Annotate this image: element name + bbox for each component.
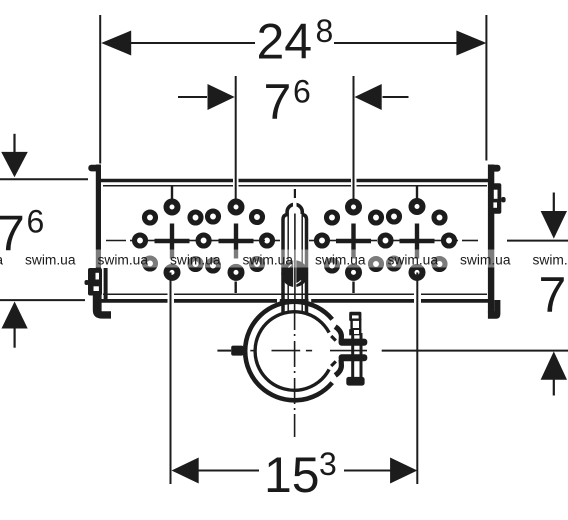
svg-text:swim.ua: swim.ua (243, 252, 294, 268)
svg-text:6: 6 (293, 74, 311, 110)
plate bottom edge thin line (103, 293, 487, 295)
left rail clip nub (85, 280, 89, 285)
svg-text:swim.ua: swim.ua (388, 252, 439, 268)
svg-text:7: 7 (0, 206, 25, 262)
plate bottom edge thick line (101, 299, 488, 303)
watermark texts (0, 252, 568, 268)
column centerline dash top x417 (416, 187, 418, 200)
clamp horizontal centerline dot (306, 350, 312, 352)
fixing cross 3 (336, 224, 371, 259)
dimension 153 left arrowhead (172, 458, 199, 484)
left rail clip slot 1 (96, 273, 100, 280)
clamp horizontal centerline through screw (330, 350, 367, 352)
column centerline dash bottom x236 (234, 282, 236, 294)
dimension 76 left up-arrow tail (14, 328, 16, 348)
dimension 76 left side: top reference line (0, 178, 88, 180)
clamp screw head inner white line (352, 315, 359, 319)
dimension 75 right down arrowhead (541, 211, 567, 239)
dimension 75 right down-arrow tail (553, 193, 555, 213)
fixing cross 2 (219, 224, 254, 259)
clamp screw upper flange bar (339, 339, 368, 346)
clamp screw shaft right edge (360, 333, 363, 377)
central tab dome apex gap (293, 201, 297, 210)
central tab inner right line (301, 214, 303, 313)
dimension 76 left up arrowhead (2, 302, 28, 329)
dimension 248 right arrowhead (456, 31, 486, 56)
dimension 76 right tail (383, 96, 409, 98)
dimension 153 bottom: left extension line from hole (170, 273, 172, 485)
dimension 76 left side: bottom reference line (0, 299, 85, 301)
dimension 248 line right segment (334, 42, 460, 44)
pipe clamp lower hook inner connector (331, 361, 336, 366)
plate right end bottom J-foot (488, 300, 501, 319)
svg-text:3: 3 (319, 446, 337, 482)
left rail clip slot 2 (94, 286, 99, 291)
clamp screw shaft left edge (351, 333, 354, 377)
svg-text:24: 24 (257, 14, 313, 70)
clamp screw lower flange bar (339, 354, 368, 361)
central tab right outer wall (302, 215, 307, 301)
dimension 248 line left segment (127, 42, 255, 44)
central tab inner left line (287, 214, 289, 313)
pipe clamp outer ring arc (245, 302, 332, 401)
dimension 153 line right segment (344, 470, 391, 472)
pipe clamp inner ring arc (255, 312, 329, 391)
dimension 153 line left segment (199, 470, 260, 472)
plate right end top toe (490, 165, 501, 172)
plate left end bar (96, 165, 101, 314)
fixing cross 1 (155, 224, 190, 259)
central tab vertical centerline top dash (294, 189, 296, 198)
plate right end bar (488, 165, 494, 313)
dimension 76 left down-arrow tail (13, 134, 15, 153)
svg-text:15: 15 (264, 447, 320, 503)
dimension 248 top: left extension line (99, 15, 101, 164)
plate horizontal centerline dash-dot (106, 240, 478, 242)
dimension 248 left arrowhead (101, 31, 131, 56)
pipe clamp upper hook (335, 327, 341, 343)
central tab vertical centerline (294, 214, 296, 301)
clamp vertical centerline dash-dot (294, 303, 296, 437)
column centerline dash bottom x353 (352, 282, 354, 294)
central tab fastener white channel (293, 260, 296, 288)
fixing cross 4 (400, 224, 435, 259)
svg-text:8: 8 (316, 13, 334, 49)
dimension 153 bottom: right extension line from hole (416, 273, 418, 485)
dimension 75 right side: top reference line (plate centerline extended) (507, 240, 568, 242)
right rail clip nub (501, 197, 506, 202)
svg-text:swim.ua: swim.ua (460, 252, 511, 268)
svg-text:7: 7 (264, 74, 292, 130)
clamp screw shoulder slot (354, 330, 359, 334)
clamp horizontal centerline dash 2 (272, 350, 301, 352)
right rail clip slot 1 (494, 190, 498, 199)
holes centerline row (135, 235, 455, 246)
central tab left outer wall (283, 215, 288, 301)
plate left end bottom J-foot (93, 294, 111, 319)
pipe clamp upper hook inner connector (331, 336, 336, 341)
clamp left lug lead line (217, 350, 231, 352)
right rail clip body (493, 183, 501, 214)
clamp horizontal centerline right solid (382, 350, 568, 352)
clamp screw shoulder (349, 329, 361, 335)
holes below crosses (167, 267, 423, 278)
svg-text:swim.ua: swim.ua (533, 252, 568, 268)
dimension 76 left tail (178, 96, 207, 98)
plate top edge thick line (101, 179, 488, 183)
plate left end top toe (88, 165, 99, 172)
holes upper row (145, 211, 446, 223)
holes lower row (145, 258, 446, 271)
clamp horizontal centerline dash 1 (250, 350, 256, 352)
central tab fastener white accents (289, 264, 294, 268)
svg-text:swim.ua: swim.ua (25, 252, 76, 268)
svg-text:7: 7 (539, 267, 567, 323)
dimension 248 top: right extension line (485, 15, 487, 161)
holes above crosses (167, 201, 423, 213)
left rail clip right bar (104, 268, 108, 300)
dimension 76 left down arrowhead (1, 152, 28, 177)
right rail clip slot 2 (493, 202, 497, 207)
left rail clip body (88, 268, 102, 296)
dimension 153 right arrowhead (390, 458, 417, 484)
pipe clamp lower hook (335, 360, 341, 376)
svg-text:6: 6 (27, 204, 45, 240)
watermark band (0, 250, 568, 268)
dimension 75 right up arrowhead (541, 351, 567, 379)
dimension 75 right up-arrow tail (553, 379, 555, 396)
dimension 76 top: left extension line into plate (235, 76, 237, 200)
clamp left lug (231, 346, 243, 356)
clamp screw neck (352, 320, 361, 330)
svg-text:swim.ua: swim.ua (170, 252, 221, 268)
dimension 76 right arrowhead (355, 84, 382, 110)
clamp screw head (349, 312, 361, 321)
column centerline dash top x172 (171, 187, 173, 200)
dimension 76 top: right extension line into plate (353, 76, 355, 200)
central tab fastener blob (281, 260, 308, 287)
dimension 76 left arrowhead (208, 84, 235, 110)
plate top edge thin line (103, 185, 487, 187)
central tab dome (287, 204, 302, 214)
central tab wall stubs through ring (283, 299, 307, 313)
svg-text:swim.ua: swim.ua (315, 252, 366, 268)
svg-text:swim.ua: swim.ua (98, 252, 149, 268)
clamp screw bottom cap (346, 377, 364, 386)
